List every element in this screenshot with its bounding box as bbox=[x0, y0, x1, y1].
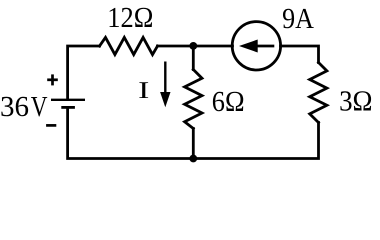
svg-text:36: 36 bbox=[0, 91, 29, 123]
battery plus sign bbox=[47, 74, 58, 85]
battery V1 long plate (+) bbox=[51, 99, 85, 101]
resistor R2 6ohm zigzag bbox=[185, 70, 202, 129]
resistor R3 3ohm zigzag bbox=[310, 63, 327, 123]
current source arrow (points left) bbox=[239, 40, 274, 53]
wire: node A down to resistor R2 bbox=[192, 46, 195, 70]
wire: R1 to node A and to current source left terminal bbox=[158, 45, 233, 48]
svg-text:3Ω: 3Ω bbox=[339, 85, 372, 117]
battery V1 short plate (-) bbox=[61, 106, 75, 109]
svg-text:9A: 9A bbox=[282, 3, 314, 35]
node B junction dot (bottom) bbox=[189, 155, 197, 163]
wire: current source right terminal to top-right corner, down to R3 bbox=[281, 46, 319, 63]
battery minus sign bbox=[46, 124, 56, 127]
wire top-left: from battery top up and right to resistor R1 bbox=[68, 46, 100, 99]
resistor R1 12ohm zigzag bbox=[100, 37, 158, 54]
wire: R2 bottom to node B bbox=[192, 129, 195, 159]
svg-text:12Ω: 12Ω bbox=[107, 2, 153, 34]
current arrow I (downward) bbox=[160, 62, 170, 108]
node A junction dot (top) bbox=[189, 42, 197, 50]
svg-text:6Ω: 6Ω bbox=[212, 86, 245, 118]
svg-text:I: I bbox=[138, 78, 149, 104]
svg-text:V: V bbox=[31, 91, 48, 123]
current source U1 circle bbox=[232, 22, 280, 70]
wire: R3 bottom to bottom-right corner and left along bottom to battery bbox=[68, 107, 319, 158]
